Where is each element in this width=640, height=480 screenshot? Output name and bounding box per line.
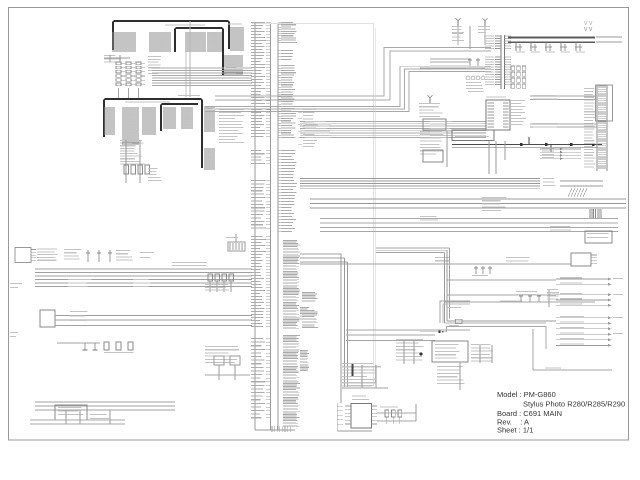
svg-text:V: V (584, 27, 588, 33)
svg-text:V: V (589, 27, 593, 33)
svg-text:V: V (584, 21, 588, 27)
svg-text:Sheet : 1/1: Sheet : 1/1 (497, 426, 533, 435)
svg-text:Model : PM-G860: Model : PM-G860 (497, 390, 556, 399)
svg-text:Stylus Photo R280/R285/R290: Stylus Photo R280/R285/R290 (523, 399, 625, 408)
svg-text:V: V (589, 21, 593, 27)
